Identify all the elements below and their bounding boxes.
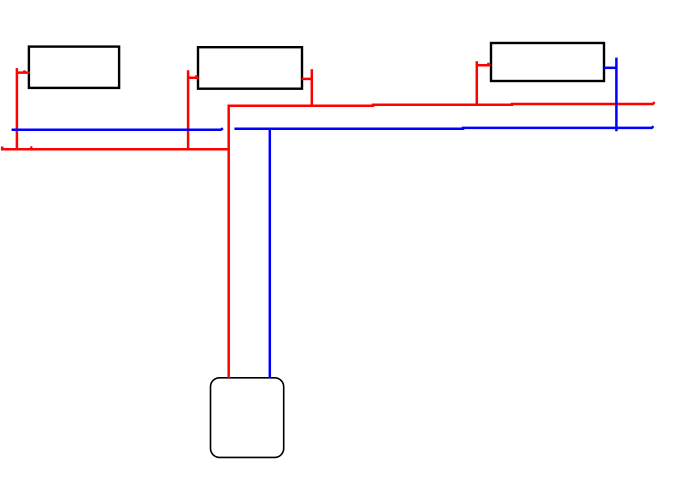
wire red drop radiator R2 right (311, 69, 314, 106)
radiator R2 (198, 47, 302, 88)
wire red valve tick radiator R3 (477, 63, 491, 66)
radiator R1 (29, 47, 119, 88)
wire red valve tick radiator R1 (17, 70, 30, 73)
wire red riser to radiator R1 (16, 68, 19, 149)
boiler B1 (211, 378, 284, 458)
wire red bottom flow main (2, 147, 229, 150)
wire blue return main left segment (12, 128, 223, 130)
wire red riser to radiator R2 (187, 70, 190, 149)
wire blue drop radiator R3 right (615, 58, 618, 132)
wire blue return main right segment (234, 126, 653, 129)
wire red valve tick radiator R2 right (302, 78, 312, 81)
radiator R3 (491, 43, 604, 81)
wire blue valve tick radiator R3 (604, 67, 617, 70)
wire blue return drop to boiler (269, 128, 272, 378)
wire red valve tick radiator R2 (188, 75, 199, 78)
wire red riser to radiator R3 (476, 61, 479, 106)
wire red top flow main and boiler riser (229, 102, 655, 378)
